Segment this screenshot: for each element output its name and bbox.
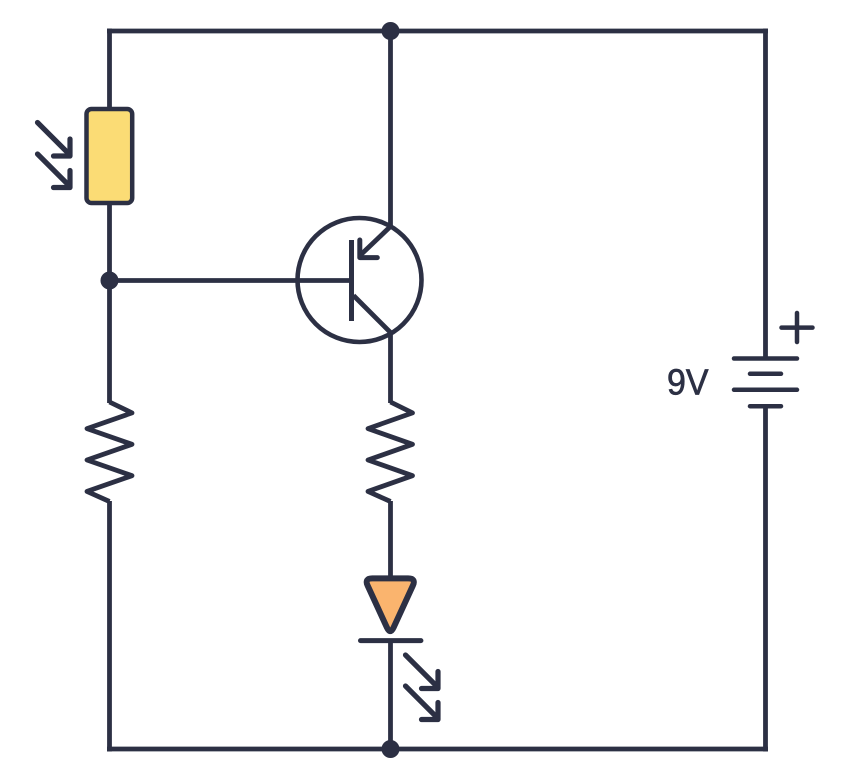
- battery BT1 plate 4 short negative: [750, 404, 781, 409]
- photoresistor LDR1 body: [87, 109, 133, 203]
- LED D1 cathode bar: [361, 638, 421, 643]
- wire top rail: [107, 29, 768, 34]
- transistor Q1: [298, 218, 422, 342]
- node base junction dot: [101, 272, 119, 290]
- battery BT1 plate 1 long positive: [734, 356, 797, 361]
- LED D1 light arrow 1: [406, 655, 439, 689]
- LED D1 triangle: [367, 578, 414, 631]
- transistor Q1 collector diagonal: [354, 296, 393, 335]
- wire left side lower (R1 to bottom rail): [107, 501, 112, 752]
- wire left side upper (top rail to LDR): [107, 29, 112, 113]
- wire R2 to LED: [388, 501, 393, 580]
- wire collector riser (top rail to Q1): [388, 31, 393, 227]
- photoresistor LDR1 light arrow 2: [38, 154, 71, 188]
- wire bottom rail: [107, 747, 768, 752]
- wire right side upper (top rail to battery): [763, 29, 768, 359]
- battery BT1: [734, 359, 797, 407]
- wire base lead: [110, 278, 352, 283]
- battery BT1 plate 3 long: [734, 388, 797, 393]
- resistor R2: [368, 402, 413, 502]
- transistor Q1 circle: [298, 218, 422, 342]
- transistor Q1 emitter arrowhead: [360, 240, 378, 258]
- LED D1 light arrow 2: [406, 686, 439, 720]
- node top junction dot: [382, 22, 400, 40]
- wire right side lower (battery to bottom rail): [763, 406, 768, 751]
- wire LED to bottom rail: [388, 640, 393, 749]
- svg-text:9V: 9V: [667, 362, 709, 403]
- resistor R1: [87, 402, 132, 502]
- battery plus sign: [782, 313, 813, 342]
- transistor Q1 base bar: [349, 240, 354, 321]
- node bottom junction dot: [382, 740, 400, 758]
- wire Q1 to R2: [388, 334, 393, 404]
- photoresistor LDR1 light arrow 1: [38, 123, 71, 157]
- wire left side middle (LDR to R1): [107, 201, 112, 403]
- battery BT1 plate 2 short: [750, 372, 781, 377]
- transistor Q1 emitter diagonal: [360, 226, 392, 256]
